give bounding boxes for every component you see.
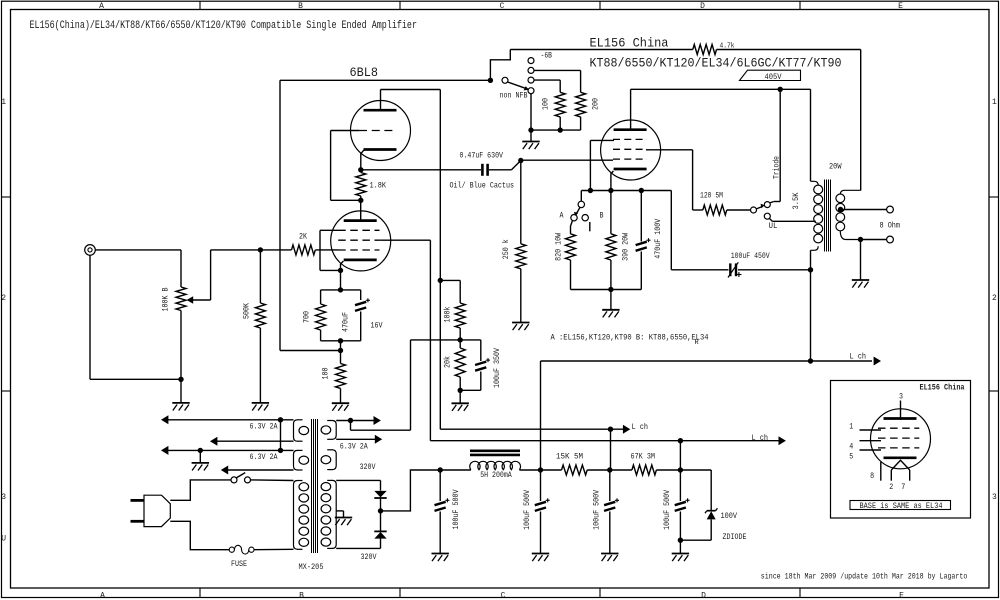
resistor 100k: [455, 303, 465, 328]
svg-text:UL: UL: [769, 222, 778, 231]
svg-text:B: B: [299, 592, 304, 600]
svg-text:D: D: [700, 2, 705, 11]
resistor 200 fb: [576, 92, 586, 117]
wire cathode V2: [611, 171, 614, 191]
svg-text:Triode: Triode: [773, 156, 782, 179]
OPT primary winding: [814, 185, 823, 194]
wire cathode rail: [581, 190, 671, 192]
ground cap d: [672, 553, 689, 555]
wire to 470uF: [341, 289, 361, 291]
wire plate to primary: [810, 89, 812, 181]
svg-text:100uF 350V: 100uF 350V: [493, 348, 502, 388]
wire fuse to primary: [254, 548, 294, 550]
terminal 8ohm hot: [887, 206, 894, 213]
wire 2K to grid: [315, 249, 338, 251]
inset heater V: [891, 460, 909, 470]
svg-text:3: 3: [992, 493, 997, 502]
arrow heater L2: [210, 437, 217, 446]
junction heater L1: [278, 417, 283, 422]
junction 20k bottom: [458, 388, 463, 393]
PT heater winding R: [332, 421, 336, 440]
junction divider mid: [458, 337, 463, 342]
PT heater winding 1: [294, 420, 298, 441]
ground divider: [452, 402, 469, 404]
wire k rail to ultrapath: [670, 191, 672, 270]
capacitor 100uF 500V d: [675, 502, 686, 505]
junction rectifier out: [378, 508, 383, 513]
svg-text:0.47uF 630V: 0.47uF 630V: [460, 151, 504, 160]
wire heater R1: [336, 420, 374, 422]
svg-text:ZDIODE: ZDIODE: [723, 533, 747, 542]
wire G2 V2: [646, 149, 693, 151]
svg-text:700: 700: [302, 311, 311, 323]
svg-text:2: 2: [889, 483, 893, 492]
wire 4.7k left: [510, 49, 693, 51]
resistor 2K: [292, 245, 316, 255]
switch wiper UL: [756, 207, 762, 209]
ground cap b: [532, 553, 549, 555]
wire NFB up: [490, 50, 510, 81]
svg-text:100uF 500V: 100uF 500V: [593, 490, 602, 530]
junction filter 2: [538, 467, 543, 472]
svg-text:250 k: 250 k: [502, 239, 511, 259]
arrow heater L3: [161, 446, 168, 455]
wire 470uF/100V top: [640, 191, 642, 242]
svg-text:100k: 100k: [443, 306, 452, 322]
fuse F1: [229, 547, 234, 552]
junction screen supply: [678, 438, 683, 443]
wire cap a gnd: [439, 512, 441, 554]
wire contact B stub: [589, 222, 591, 231]
junction grid node: [258, 247, 263, 252]
svg-text:A: A: [100, 592, 105, 600]
svg-text:B: B: [600, 212, 604, 221]
wire 390 top: [610, 191, 612, 234]
wire cap c gnd: [609, 512, 611, 554]
wire divider to heater: [410, 340, 412, 430]
svg-text:L ch: L ch: [850, 353, 867, 362]
svg-text:120 5M: 120 5M: [700, 192, 723, 201]
wire plate V1b: [360, 200, 362, 220]
resistor 820 10W: [566, 234, 576, 260]
wire cathode node down: [340, 270, 342, 290]
svg-text:6.3V 2A: 6.3V 2A: [250, 453, 278, 462]
OPT secondary winding: [836, 194, 845, 203]
PT aux winding R: [332, 450, 336, 470]
wire G3 V1b: [320, 229, 338, 231]
wire 820 bottom: [570, 260, 572, 290]
wire 100 bottom: [340, 388, 342, 403]
arrow heater L4: [221, 466, 228, 475]
svg-text:EL156 China: EL156 China: [920, 383, 965, 392]
wire triode contact: [770, 202, 774, 203]
svg-text:since 18th Mar 2009 /update 10: since 18th Mar 2009 /update 10th Mar 201…: [761, 572, 968, 581]
OPT core: [825, 180, 831, 252]
svg-text:L ch: L ch: [752, 434, 769, 443]
terminal 8ohm cold: [887, 236, 894, 243]
contact -6B: [528, 58, 534, 64]
wire cap to B+ node: [738, 269, 811, 271]
junction triode tap: [778, 87, 783, 92]
arrow heater L1: [161, 415, 168, 424]
wire 15K to node3: [587, 469, 610, 471]
svg-text:100V: 100V: [721, 512, 738, 521]
wire plate V2: [630, 89, 632, 129]
junction filter 1: [438, 467, 443, 472]
svg-text:1: 1: [849, 423, 853, 432]
switch pole AB: [578, 201, 584, 207]
contact Triode: [764, 202, 770, 208]
svg-text:non NFB: non NFB: [500, 92, 528, 101]
junction coupling node: [518, 158, 523, 163]
wire plug top: [170, 480, 231, 500]
svg-text:-6B: -6B: [541, 52, 553, 61]
wire cap b gnd: [540, 512, 542, 554]
wire contact4 down: [530, 94, 532, 130]
ground center tap: [335, 517, 352, 519]
svg-text:7: 7: [901, 483, 905, 492]
svg-text:BASE is SAME as EL34: BASE is SAME as EL34: [860, 502, 943, 511]
wire triode tap down: [779, 89, 781, 201]
ground 500K: [252, 402, 269, 404]
wire screen supply line: [430, 440, 778, 442]
svg-text:A :EL156,KT120,KT90 B: KT88,: A :EL156,KT120,KT90 B: KT88,6550,EL34: [551, 333, 709, 342]
wire plug bottom: [170, 521, 229, 549]
svg-text:EL156(China)/EL34/KT88/KT66/65: EL156(China)/EL34/KT88/KT66/6550/KT120/K…: [30, 20, 418, 32]
ground pot: [172, 402, 189, 404]
OPT primary lead top: [811, 181, 819, 185]
PT core: [312, 419, 318, 553]
resistor 500K: [255, 303, 265, 328]
wire cap 350V bottom: [480, 372, 482, 391]
wire G2 screen drop: [429, 240, 431, 441]
wire HV center tap: [336, 510, 343, 512]
junction divider tap: [438, 278, 443, 283]
svg-text:470uF 100V: 470uF 100V: [654, 219, 663, 259]
arrow screen L ch: [779, 436, 786, 445]
wire B+ drop 6BL8: [439, 90, 441, 430]
wire NFB line: [279, 80, 281, 350]
junction k rail k: [608, 188, 613, 193]
svg-text:200: 200: [592, 98, 601, 110]
svg-text:5: 5: [849, 453, 853, 462]
inset base note box: [850, 501, 951, 510]
wire divider tap: [440, 279, 460, 281]
capacitor 100uF 350V: [475, 362, 486, 365]
switch wiper AB: [576, 207, 580, 214]
wire plate rail: [631, 88, 811, 90]
AC plug: [144, 495, 170, 526]
svg-text:C: C: [500, 2, 505, 11]
switch wiper NFB: [507, 82, 525, 88]
wire 20k bottom: [459, 377, 461, 403]
wire jack to pot: [95, 249, 181, 251]
wire 4.7k right: [717, 49, 861, 51]
contact 3: [528, 77, 534, 83]
svg-text:4: 4: [849, 443, 853, 452]
svg-text:15K 5M: 15K 5M: [556, 453, 583, 462]
wire k rail pole: [580, 191, 582, 202]
wire 67K to node4: [656, 469, 680, 471]
wire heater L1: [163, 419, 294, 421]
wire filter4 cap: [679, 470, 681, 501]
svg-text:820 10W: 820 10W: [554, 233, 563, 261]
junction NFB node: [338, 348, 343, 353]
resistor 4.7k: [693, 45, 717, 55]
wire cap d gnd: [679, 512, 681, 554]
resistor 100 cathode: [336, 364, 346, 389]
resistor 20k: [455, 348, 465, 377]
wire tap to terminal: [843, 209, 887, 211]
junction cathode RC: [338, 287, 343, 292]
resistor 67K 3M: [632, 465, 657, 475]
wire cathode V1b: [341, 261, 344, 270]
output pentode V2: [601, 120, 661, 180]
junction cathode V1a: [358, 167, 363, 172]
wire pot top lead: [180, 250, 182, 287]
OPT secondary lead top: [840, 190, 860, 194]
wire switch to primary: [251, 479, 294, 482]
diode D1: [374, 491, 386, 498]
wire cathode to cap: [361, 169, 481, 171]
wire 470uF/100V bottom: [640, 252, 642, 290]
switch pole AC: [231, 477, 237, 483]
svg-text:320V: 320V: [360, 463, 376, 472]
wire contact3 to 100: [534, 79, 560, 81]
wire zener bottom: [710, 519, 712, 540]
junction heater R1: [348, 418, 353, 423]
wire contact A down: [571, 221, 573, 227]
pot wiper arrow: [187, 296, 194, 304]
OPT primary lead bottom: [811, 246, 819, 250]
svg-text:1.8K: 1.8K: [370, 181, 387, 190]
resistor 700: [316, 304, 326, 330]
junction fb rail 1: [528, 127, 533, 132]
svg-text:D: D: [701, 592, 706, 600]
ground cap c: [601, 553, 618, 555]
resistor 1.8K: [356, 173, 366, 197]
wire filter1 cap: [439, 470, 441, 501]
junction 6BL8 supply: [608, 427, 613, 432]
wire contact2 to 200: [534, 69, 580, 71]
svg-text:8 Ohm: 8 Ohm: [880, 221, 901, 230]
wire bias to gnd: [610, 290, 612, 310]
junction B+ OPT: [808, 358, 813, 363]
junction cathode V1b: [338, 268, 343, 273]
contact 2: [528, 67, 534, 73]
wire wiper to node: [211, 249, 261, 251]
svg-text:16V: 16V: [371, 322, 383, 331]
wire plate V1a to B+ drop: [381, 89, 441, 91]
wire cathode chain: [340, 341, 342, 364]
svg-text:3: 3: [1, 493, 6, 502]
wire jack ground return: [89, 255, 91, 379]
choke lead right: [519, 469, 540, 471]
svg-text:2: 2: [1, 294, 6, 303]
wire 100k bottom: [459, 328, 461, 348]
switch wiper AC: [236, 473, 245, 478]
PT primary winding: [294, 481, 298, 550]
wire fb rail to gnd: [530, 130, 532, 141]
svg-text:390 20W: 390 20W: [622, 233, 631, 261]
PT heater winding 2: [294, 450, 298, 470]
wire 6BL8 supply line: [440, 428, 623, 430]
wire plate V1a: [380, 90, 382, 111]
switch contact AC: [245, 477, 251, 483]
capacitor 470uF 16V: [355, 302, 366, 305]
wire G2 to 120 5M: [693, 209, 703, 211]
arrow heater R2: [375, 435, 382, 444]
wire to 15K: [541, 469, 562, 471]
triode V1a 6BL8: [351, 101, 411, 161]
wire filter3 cap: [609, 470, 611, 501]
wire NFB top: [280, 79, 490, 81]
arrow 6BL8 supply L ch: [623, 425, 630, 434]
capacitor 100uF 500V a: [435, 502, 446, 505]
svg-text:A: A: [560, 212, 564, 221]
capacitor 100uF 500V c: [604, 502, 615, 505]
wire divider mid: [411, 339, 481, 341]
wire grid V1a down: [330, 131, 332, 201]
svg-text:2: 2: [992, 294, 997, 303]
choke lead left: [440, 469, 471, 471]
svg-text:1: 1: [992, 98, 997, 107]
wire HV top to D1: [336, 479, 380, 481]
resistor 250 k: [516, 244, 526, 269]
resistor 15K 5M: [562, 465, 588, 475]
wire primary bottom to B+: [810, 250, 812, 361]
wire 120 to pole: [727, 209, 751, 211]
wire 1.8K bottom: [360, 196, 362, 200]
inset box: [831, 381, 971, 519]
svg-text:100uF 450V: 100uF 450V: [731, 252, 770, 261]
pentode V1b 6BL8: [331, 211, 391, 271]
svg-text:20k: 20k: [443, 356, 452, 368]
svg-text:500K: 500K: [242, 303, 251, 319]
contact 4: [528, 88, 534, 94]
wire fb bottom rail: [531, 129, 581, 131]
wire filter2 cap: [540, 470, 542, 501]
switch pole UL: [751, 207, 757, 213]
svg-text:3: 3: [899, 393, 903, 402]
zener ZD 100V: [707, 510, 716, 512]
svg-text:3.5K: 3.5K: [792, 192, 801, 209]
contact UL: [764, 213, 770, 219]
svg-text:C: C: [501, 592, 506, 600]
wire rectifier riser: [381, 470, 441, 511]
wire node to D2: [380, 511, 382, 531]
junction NFB switch: [488, 78, 493, 83]
wire heater L2: [212, 440, 294, 442]
wire cap to node: [489, 169, 512, 171]
junction primary bottom: [808, 267, 813, 272]
AC prong 2: [131, 520, 145, 523]
arrow B+ L ch: [874, 357, 881, 366]
resistor 100 fb: [555, 92, 565, 117]
wire heater R2: [336, 438, 375, 440]
svg-text:1: 1: [1, 98, 6, 107]
junction plate V1b: [358, 198, 363, 203]
svg-text:8: 8: [870, 472, 874, 481]
wire secondary gnd: [860, 240, 862, 281]
junction cathode bottom: [338, 338, 343, 343]
wire B+ to OPT: [541, 360, 811, 362]
svg-text:E: E: [898, 2, 903, 11]
wire 6BL8 supply riser: [610, 429, 612, 470]
resistor 120 5M: [703, 205, 727, 215]
wire D1 to node: [380, 498, 382, 511]
contact A: [571, 215, 577, 221]
svg-text:6.3V 2A: 6.3V 2A: [250, 422, 278, 431]
wire UL contact: [770, 219, 773, 222]
svg-text:2K: 2K: [299, 232, 307, 241]
wire to 67K: [610, 469, 632, 471]
junction pot bottom: [178, 377, 183, 382]
svg-text:KT88/6550/KT120/EL34/6L6GC/KT7: KT88/6550/KT120/EL34/6L6GC/KT77/KT90: [590, 56, 842, 71]
ground secondary: [852, 279, 869, 281]
wire pot bottom: [180, 311, 182, 403]
svg-text:6BL8: 6BL8: [350, 65, 379, 80]
wire bias bottom rail: [571, 289, 642, 291]
wire cathode V1a: [361, 150, 364, 170]
junction zener return: [678, 538, 683, 543]
diode D2: [374, 530, 386, 532]
wire 470uF bottom: [360, 312, 362, 341]
svg-text:100: 100: [321, 367, 330, 379]
svg-text:Oil/ Blue Cactus: Oil/ Blue Cactus: [450, 182, 515, 191]
OPT tap junction: [838, 207, 843, 212]
wire NFB to secondary: [860, 50, 862, 191]
resistor 500K leads: [259, 250, 261, 303]
wire heater L3: [163, 449, 294, 451]
ground bias: [602, 309, 619, 311]
ground 250k: [512, 322, 529, 324]
svg-text:100uF 500V: 100uF 500V: [663, 490, 672, 530]
svg-text:B: B: [298, 2, 303, 11]
wire 250k bottom: [520, 269, 522, 323]
choke 5H 200mA: [470, 461, 521, 469]
arrow heater R1: [374, 416, 381, 425]
wire D2 to HV bottom: [380, 539, 382, 549]
svg-text:E: E: [899, 592, 904, 600]
svg-text:320V: 320V: [361, 553, 377, 562]
svg-text:100: 100: [541, 98, 550, 110]
wire 250k top: [520, 161, 522, 244]
capacitor 0.47uF 630V: [481, 164, 484, 176]
input jack J1: [85, 245, 96, 256]
svg-text:A: A: [99, 2, 104, 11]
capacitor 470uF 100V: [636, 242, 647, 245]
svg-text:470uF: 470uF: [341, 312, 350, 332]
junction secondary gnd: [858, 237, 863, 242]
resistor 390 20W: [606, 234, 616, 260]
wire heater tie: [280, 420, 282, 451]
ground heater: [192, 462, 209, 464]
wire B+ riser: [540, 361, 542, 470]
svg-text:FUSE: FUSE: [231, 560, 247, 569]
PT HV winding: [332, 480, 336, 548]
contact B: [582, 215, 588, 221]
OPT secondary lead bottom: [840, 231, 860, 240]
wire secondary to terminal: [861, 239, 887, 241]
wire heater L4: [223, 469, 294, 471]
capacitor 100uF 450V: [729, 263, 731, 276]
junction k rail g3: [588, 188, 593, 193]
potentiometer 100K B: [176, 287, 186, 311]
junction heater gnd: [198, 448, 203, 453]
svg-text:U: U: [1, 535, 6, 544]
inset tube EL156: [871, 409, 931, 469]
